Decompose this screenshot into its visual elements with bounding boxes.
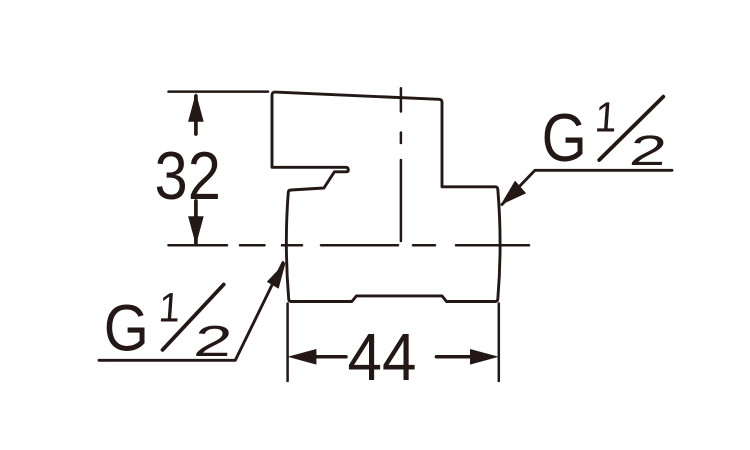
dim 32: top arrowhead — [188, 93, 204, 122]
svg-text:G: G — [542, 101, 587, 176]
vertical centerline (axis) — [400, 88, 403, 241]
dim 44: left arrowhead — [288, 349, 317, 365]
label fraction 1 (lower left) — [157, 285, 182, 331]
svg-text:G: G — [104, 292, 149, 365]
leader line lower-left G1/2 — [99, 263, 283, 361]
label fraction slash (upper right) — [599, 97, 663, 160]
leader arrowhead upper-right — [501, 181, 526, 205]
leader line upper-right G1/2 — [502, 170, 672, 204]
label fraction 2 (upper right) — [627, 127, 669, 174]
dim text 32 — [155, 137, 221, 214]
label fraction 2 (lower left) — [192, 317, 235, 366]
dim 32: top extension line — [169, 90, 269, 93]
dim 44: dimension line shafts — [314, 355, 470, 359]
svg-text:2: 2 — [192, 317, 235, 366]
part outline (fitting body profile) — [272, 92, 500, 301]
horizontal centerline (axis) — [169, 244, 530, 247]
dim 44: extension lines — [288, 304, 499, 382]
dim 32: bottom arrowhead — [188, 216, 204, 245]
dim 32: dimension line shafts — [194, 96, 198, 243]
label G (upper right) — [542, 101, 587, 176]
dim 44: right arrowhead — [470, 349, 499, 365]
label fraction slash (lower left) — [163, 285, 224, 350]
label G (lower left) — [104, 292, 149, 365]
dim text 44 — [348, 319, 417, 395]
svg-text:1: 1 — [593, 93, 618, 141]
label fraction 1 (upper right) — [593, 93, 618, 141]
leader arrowhead lower-left — [267, 262, 286, 289]
svg-text:32: 32 — [155, 137, 221, 214]
svg-text:2: 2 — [627, 127, 669, 174]
svg-text:1: 1 — [157, 285, 182, 331]
svg-text:44: 44 — [348, 319, 417, 395]
